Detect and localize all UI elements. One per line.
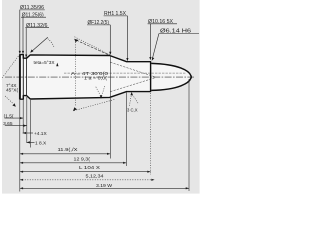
- label L7 diagonal leader: [152, 34, 159, 59]
- svg-text:L 104 X: L 104 X: [79, 165, 101, 171]
- dim line 3: [20, 171, 151, 173]
- neck bottom extension: [125, 92, 127, 166]
- groove wall lines: [26, 58, 28, 95]
- bottom angle dotted diagonal: [74, 99, 116, 110]
- datum dashed line: [64, 72, 187, 74]
- shoulder extension dashed: [76, 40, 109, 55]
- small arrow at body line: [56, 63, 58, 67]
- dim line 1: [20, 153, 111, 155]
- centerline: [5, 76, 194, 78]
- label L2 leader: [22, 17, 24, 52]
- svg-text:ØF12.2(5): ØF12.2(5): [88, 20, 110, 26]
- dotted drop from arrow: [74, 42, 76, 107]
- svg-text:(1.5(: (1.5(: [4, 113, 14, 119]
- small dim D: [27, 141, 35, 143]
- page background: [0, 0, 200, 200]
- svg-text:5,12,34: 5,12,34: [86, 174, 104, 180]
- dim line 5: [20, 187, 189, 189]
- label L3 leader: [25, 28, 27, 56]
- label L6 leader: [149, 24, 151, 59]
- svg-text:3.65: 3.65: [3, 121, 13, 127]
- svg-text:Ø10.16 5X: Ø10.16 5X: [148, 19, 174, 25]
- svg-text:Ø11.32/6: Ø11.32/6: [26, 23, 48, 29]
- case white fill: [20, 55, 151, 100]
- bullet tip extension: [188, 79, 190, 191]
- svg-text:teta=5°3X: teta=5°3X: [34, 60, 56, 66]
- label L1 leader: [19, 10, 21, 53]
- dim line 2: [20, 162, 127, 164]
- base extension: [19, 100, 21, 192]
- rim inner line: [22, 55, 24, 100]
- dotted diagonal to head label: [1, 56, 18, 79]
- head angle leader line: [31, 37, 48, 52]
- apex dashed line upper: [110, 62, 156, 77]
- groove-end extension: [26, 97, 28, 143]
- svg-text:Ø11.35/96: Ø11.35/96: [20, 5, 44, 11]
- V dotted leader to bottom wall: [96, 87, 101, 96]
- label L5 leader + shoulder extension line: [109, 25, 111, 54]
- svg-text:1 8.X: 1 8.X: [35, 140, 47, 146]
- bullet white fill: [151, 63, 191, 90]
- cartridge case outline: [20, 55, 151, 100]
- svg-text:3.19 W: 3.19 W: [96, 183, 112, 189]
- svg-text:RH1 1.5X: RH1 1.5X: [104, 11, 127, 17]
- small dim A: [5, 117, 23, 119]
- small dim C: [23, 132, 33, 134]
- small dim B: [5, 125, 27, 127]
- gray drawing background: [2, 0, 200, 194]
- bullet: [151, 63, 191, 90]
- second dotted diagonal to shoulder corner: [75, 37, 110, 55]
- svg-text:1 a = 0,0(: 1 a = 0,0(: [84, 76, 107, 82]
- dim line 4 dotted: [20, 179, 154, 181]
- head angle arrowhead: [30, 49, 33, 52]
- case head thick left face: [19, 54, 21, 99]
- svg-text:45°X(: 45°X(: [6, 88, 18, 94]
- label L4 leader: [126, 16, 128, 60]
- bevel-end extension: [30, 100, 32, 148]
- mouth dotted extension: [150, 93, 152, 175]
- shoulder extension arrowhead: [74, 39, 78, 42]
- rim-right extension: [22, 100, 24, 133]
- svg-text:Ø11.25(6): Ø11.25(6): [22, 13, 44, 19]
- svg-text:11.9(,/X: 11.9(,/X: [58, 147, 79, 153]
- head angle dotted arc: [48, 39, 55, 48]
- svg-text:12 9,3(: 12 9,3(: [74, 156, 91, 162]
- svg-text:3 C,X: 3 C,X: [127, 107, 138, 113]
- apex dashed line lower: [110, 78, 156, 92]
- svg-text:+4.1X: +4.1X: [34, 131, 47, 137]
- bottom angle arrowhead: [73, 107, 77, 111]
